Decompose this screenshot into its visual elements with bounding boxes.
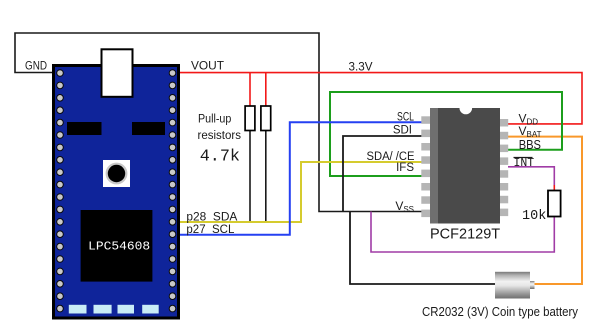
svg-text:3.3V: 3.3V [349, 62, 373, 74]
svg-text:CR2032 (3V) Coin type battery: CR2032 (3V) Coin type battery [422, 305, 579, 319]
svg-text:PCF2129T: PCF2129T [430, 227, 500, 243]
svg-text:Pull-up: Pull-up [198, 114, 231, 126]
svg-text:SDI: SDI [393, 125, 412, 137]
IC pin R3 [500, 145, 508, 153]
wire red drop to resistor R1 [249, 73, 251, 106]
header block left [67, 122, 102, 135]
IC left edge strip [430, 108, 438, 224]
svg-text:IFS: IFS [396, 162, 414, 174]
IC U1 PCF2129T body [430, 108, 500, 224]
IC pin L8 [421, 210, 430, 218]
board pins left column [57, 70, 64, 312]
IC pin L5 [421, 170, 430, 178]
svg-text:BBS: BBS [519, 137, 542, 152]
button cap [107, 164, 127, 184]
pad strip 4 [142, 305, 159, 314]
resistor R2 4.7k pull-up [261, 106, 271, 131]
chip LPC54608 [81, 210, 153, 282]
svg-text:p28 SDA: p28 SDA [186, 212, 237, 224]
board pins right column [169, 70, 176, 312]
svg-text:p27 SCL: p27 SCL [186, 224, 235, 236]
IC pin R2 [500, 132, 508, 140]
wire SDI black net to GND line [343, 136, 422, 212]
resistor R1 4.7k pull-up [245, 106, 255, 131]
pad strip 3 [118, 305, 135, 314]
wire INT purple to resistor R3 [508, 167, 554, 185]
IC pin R1 [500, 119, 508, 127]
IC pin L7 [421, 196, 430, 204]
svg-text:INT: INT [514, 157, 535, 170]
wire red drop to resistor R2 [265, 73, 267, 106]
IC pin R8 [500, 209, 508, 217]
wire red stub above 10k [553, 185, 555, 191]
wire SCL blue net from p27 to SCL pin [180, 122, 422, 235]
wire IFS to BBS green net [330, 92, 562, 176]
IC pin R6 [500, 183, 508, 191]
IC pin L2 [421, 130, 430, 138]
IC pin L6 [421, 183, 430, 191]
IC pin R7 [500, 196, 508, 204]
wire SDA yellow net from p28 to SDA//CE pin [180, 162, 422, 222]
wire R1 bottom lead to SDA [249, 131, 251, 223]
svg-text:10k: 10k [522, 209, 546, 224]
board LPC54608 outline [52, 64, 180, 320]
svg-text:VSS: VSS [395, 199, 414, 214]
svg-text:SCL: SCL [397, 112, 414, 124]
board blue PCB [55, 67, 177, 317]
IC pin L4 [421, 156, 430, 164]
IC pin R4 [500, 157, 508, 165]
battery CR2032 body [495, 272, 530, 299]
wire purple from R3 bottom to VSS line [371, 212, 554, 253]
USB connector [102, 49, 133, 97]
IC notch [460, 108, 473, 114]
IC pin L1 [421, 116, 430, 124]
svg-text:VOUT: VOUT [191, 61, 224, 73]
wire battery negative to GND [350, 212, 495, 285]
pad strip 2 [94, 305, 112, 314]
battery positive nub [530, 281, 535, 289]
wire R2 bottom lead to SDA [265, 131, 267, 223]
header block right [132, 122, 165, 135]
IC pin L3 [421, 143, 430, 151]
wire GND net from board to VSS pin [15, 33, 422, 212]
resistor R3 10k [548, 191, 561, 217]
svg-text:resistors: resistors [198, 130, 242, 142]
svg-text:LPC54608: LPC54608 [88, 240, 150, 254]
wire VBAT orange net to battery positive [508, 137, 582, 284]
button white square [103, 160, 130, 187]
pad strip 1 [69, 305, 87, 314]
wire VOUT / 3.3V red net to VDD pin [180, 73, 582, 124]
IC pin R5 [500, 170, 508, 178]
svg-text:4.7k: 4.7k [200, 148, 240, 167]
svg-text:GND: GND [25, 61, 47, 73]
